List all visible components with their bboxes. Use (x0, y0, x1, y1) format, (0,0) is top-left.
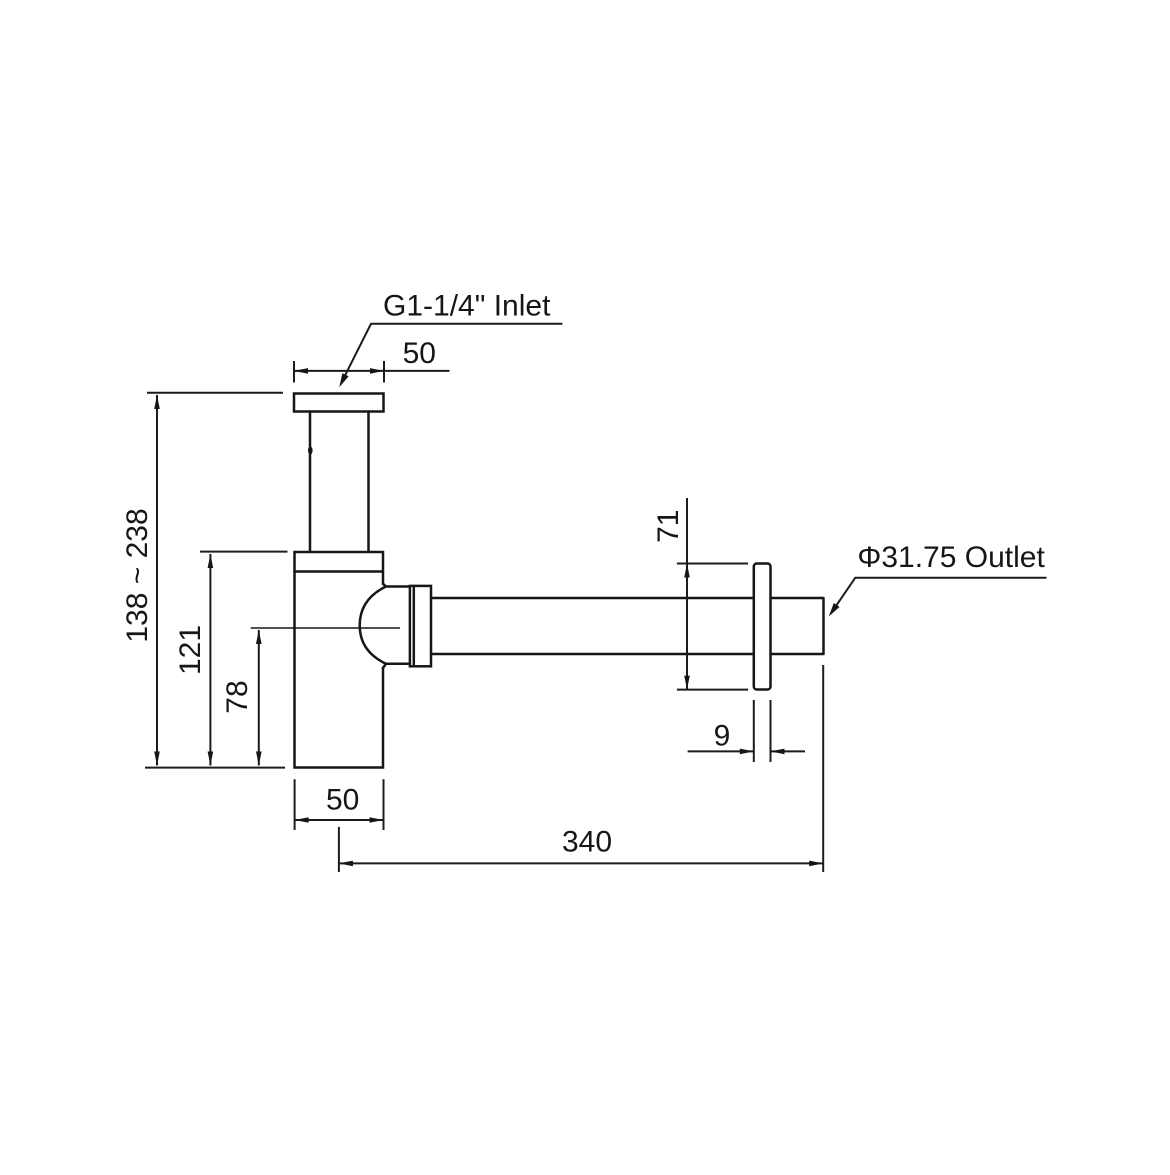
arrow 138 top (154, 395, 160, 409)
body flange line (295, 570, 384, 573)
arrow 78 top (256, 630, 262, 644)
dim 121 extension line (200, 551, 288, 553)
arrow 138 bottom (154, 752, 160, 766)
dim 340 extension lines (339, 665, 823, 872)
inlet tube (310, 412, 369, 552)
arrow 50bottom right (370, 817, 384, 823)
arrow dim50top left (294, 368, 308, 374)
dim 121 line (209, 554, 211, 766)
outlet leader line (832, 578, 1047, 613)
arrow 9 left (740, 749, 754, 755)
dim 50 top line (294, 370, 450, 372)
dim 9 lines (688, 750, 805, 752)
dim 9 extension lines (754, 700, 771, 762)
svg-text:50: 50 (326, 784, 359, 817)
outlet pipe (431, 598, 824, 654)
nut washer line (413, 586, 416, 666)
pipe centerline (251, 627, 400, 629)
arrow 121 bottom (208, 752, 214, 766)
inlet leader line (342, 324, 563, 383)
dim 50 bottom extension lines (295, 779, 384, 830)
svg-text:50: 50 (403, 337, 436, 370)
arrow 50bottom left (295, 817, 309, 823)
compression nut (410, 586, 431, 666)
dim 78 line (258, 630, 260, 766)
svg-text:121: 121 (174, 625, 207, 675)
dim 50 bottom line (295, 819, 384, 821)
arrow inlet leader (336, 373, 348, 389)
svg-text:71: 71 (652, 510, 685, 543)
dim 50 top extension ticks (294, 361, 384, 383)
arrow dim50top right (370, 368, 384, 374)
svg-text:9: 9 (714, 719, 731, 752)
svg-text:340: 340 (562, 826, 612, 859)
svg-text:Φ31.75 Outlet: Φ31.75 Outlet (857, 541, 1045, 574)
dim 340 line (339, 862, 823, 864)
tube tick mark (308, 447, 313, 455)
inlet top cap (294, 394, 384, 412)
trap body (295, 552, 384, 768)
svg-text:138 ~ 238: 138 ~ 238 (121, 508, 154, 642)
wall flange (754, 564, 771, 690)
arrow 340 left (339, 861, 353, 867)
arrow 340 right (809, 861, 823, 867)
dim 71 extension lines (677, 564, 748, 690)
arrow outlet leader (826, 603, 840, 619)
arrow 9 right (771, 749, 785, 755)
svg-text:G1-1/4" Inlet: G1-1/4" Inlet (383, 290, 551, 323)
arrow 71 top (684, 564, 690, 578)
side outlet dome (360, 584, 410, 668)
arrow 71 bottom (684, 676, 690, 690)
arrow 78 bottom (256, 752, 262, 766)
dim 138~238 extension lines (145, 393, 285, 768)
arrow 121 top (208, 554, 214, 568)
dim 71 line (686, 498, 688, 689)
dim 138~238 line (156, 395, 158, 766)
svg-text:78: 78 (221, 680, 254, 713)
